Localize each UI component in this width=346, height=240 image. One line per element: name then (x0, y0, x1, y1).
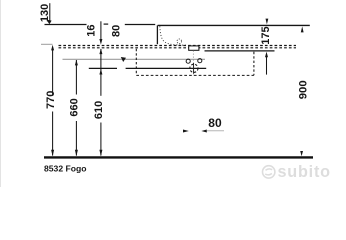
dimension 130 line (49, 3, 51, 23)
dimension 80 bottom left arrow (183, 130, 189, 133)
svg-text:80: 80 (110, 25, 122, 37)
dimension 610 arrow down (99, 150, 102, 156)
dimension 660 line upper (75, 60, 77, 95)
drain circle vertical crosshair (193, 63, 195, 74)
lower rail line left part (89, 67, 117, 69)
drain box (189, 46, 199, 50)
watermark subito logo circle (263, 166, 275, 178)
console bottom dashed line (59, 47, 297, 49)
dimension 80 bottom right arrow (201, 130, 206, 133)
dimension 175 bottom arrow (265, 52, 268, 58)
drain center dotted line (192, 51, 194, 76)
dimension 660 arrow down (75, 150, 78, 156)
lower rail line right part (126, 67, 207, 69)
left edge shadow (0, 0, 1, 187)
top rim line middle segment (104, 23, 109, 25)
dimension 900 bottom tick (300, 151, 303, 156)
drain circle dashed (190, 64, 198, 72)
console top dashed line (59, 45, 297, 47)
top rim line right segment (125, 24, 155, 26)
dimension 610 arrow at rail (99, 69, 102, 75)
dimension 130 arrow (46, 20, 51, 25)
dimension 770 line upper (52, 50, 54, 96)
floor line (44, 156, 313, 158)
dimension 610 line lower (100, 123, 102, 156)
console top extension gray (41, 43, 53, 45)
fixing hole right circle (198, 59, 202, 63)
dimension 175 bottom tail (266, 57, 268, 75)
dimension 900 top tick (301, 26, 304, 32)
tap hole dotted circle (177, 39, 182, 44)
svg-text:subito: subito (278, 163, 331, 181)
svg-text:660: 660 (69, 98, 81, 116)
dimension 660 line lower (75, 121, 77, 156)
dimension 610 line upper (100, 49, 102, 96)
svg-text:770: 770 (45, 91, 57, 109)
dimension 770 arrow up (51, 45, 54, 51)
dimension 770 arrow down (51, 150, 54, 156)
dimension 16 upper line (100, 21, 102, 40)
basin top line (158, 24, 310, 26)
svg-text:80: 80 (208, 116, 222, 130)
svg-text:175: 175 (260, 26, 272, 44)
svg-text:610: 610 (93, 101, 105, 119)
dimension 16 arrow down (99, 39, 102, 45)
dimension 80 bottom leader (207, 130, 224, 132)
dimension 16 arrow up / 610 upper line (99, 49, 102, 55)
dimension 660 arrow up (75, 60, 78, 66)
fixing hole left circle (186, 59, 190, 63)
dimension 80 top arrow (121, 57, 126, 62)
svg-text:130: 130 (39, 4, 51, 22)
hidden basin box left dashed edge (135, 49, 137, 75)
svg-text:16: 16 (86, 24, 98, 36)
dimension 175 top tick (266, 19, 269, 25)
towel rail gray line (63, 58, 206, 60)
dimension 770 line lower (52, 112, 54, 156)
hidden basin box right dashed edge (253, 52, 255, 75)
svg-text:900: 900 (297, 80, 309, 99)
svg-text:8532 Fogo: 8532 Fogo (44, 163, 87, 173)
basin bottom front line (205, 50, 275, 52)
basin left wall (156, 25, 158, 44)
bowl hidden profile dotted (160, 26, 187, 45)
top rim line left segment (45, 24, 87, 26)
hidden basin box bottom dashed edge (136, 74, 254, 76)
